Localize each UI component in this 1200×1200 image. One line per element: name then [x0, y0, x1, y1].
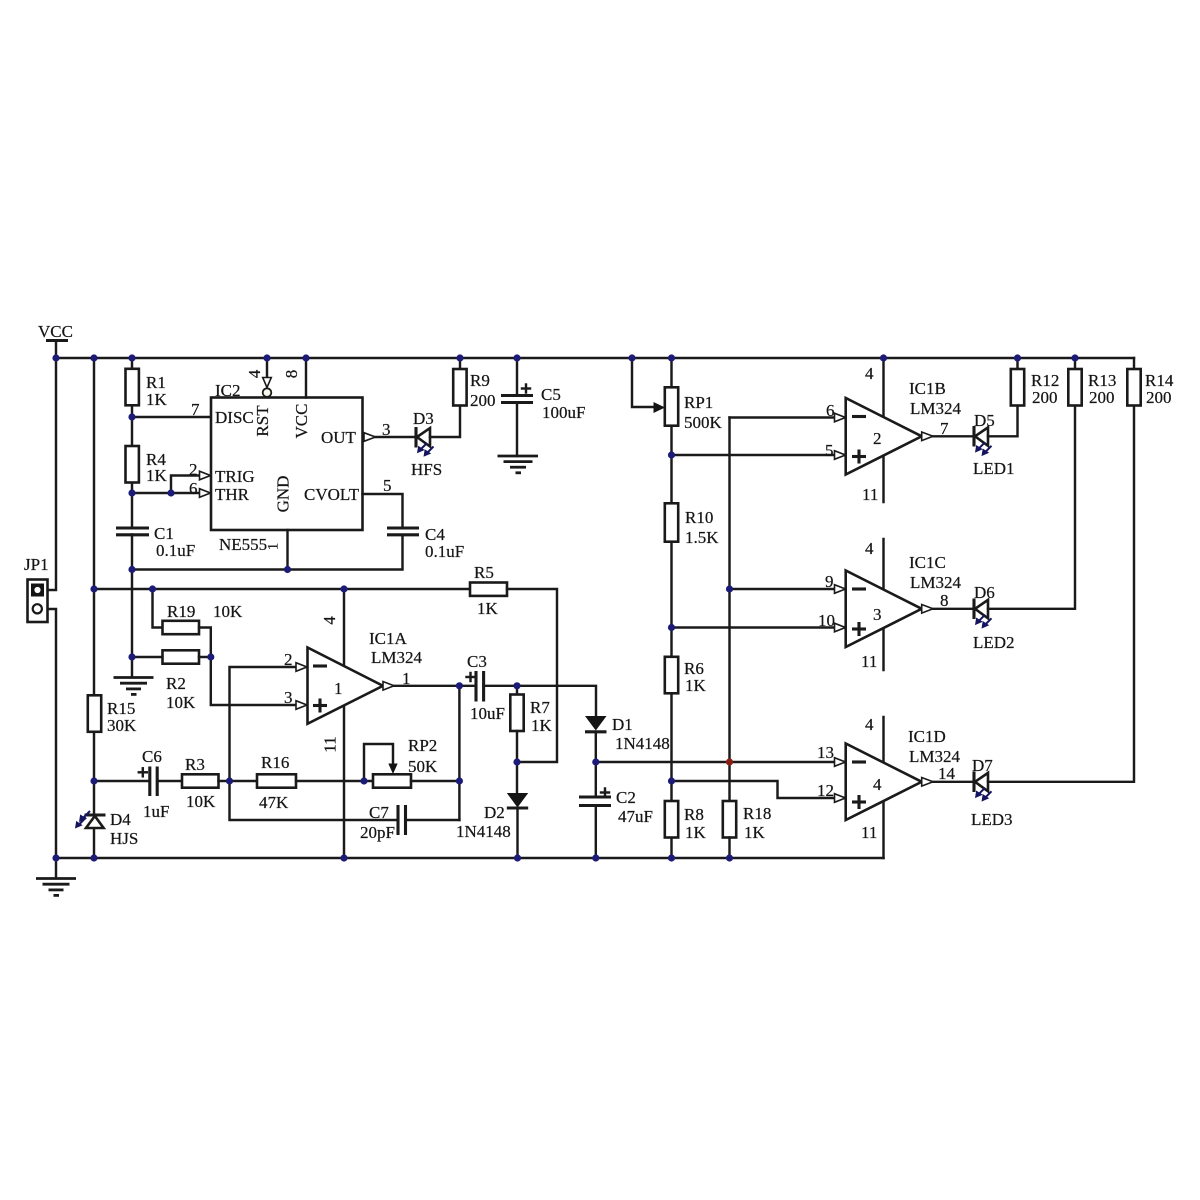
wire R16 to RP2 [296, 780, 373, 782]
pin arrow RST down [263, 378, 272, 388]
svg-text:8: 8 [940, 591, 949, 610]
svg-text:7: 7 [191, 400, 200, 419]
pin arrow IC1C pin9 [835, 585, 846, 594]
svg-text:R3: R3 [185, 755, 205, 774]
junction rail / R15 [90, 585, 97, 592]
capacitor C3 [467, 652, 505, 723]
svg-text:2: 2 [284, 650, 293, 669]
diode D1 1N4148 [585, 715, 670, 797]
capacitor C4 [387, 525, 464, 561]
svg-text:1K: 1K [685, 823, 707, 842]
wire R19 to R2 node [199, 628, 211, 658]
svg-text:1K: 1K [146, 466, 168, 485]
wire R5 to node A [507, 589, 557, 762]
junction VCC bus / R9 [456, 354, 463, 361]
junction VCC bus / 555 RST [263, 354, 270, 361]
wire divider ladder column x=671.5 [670, 358, 672, 858]
junction VCC bus / JP1 branch [52, 354, 59, 361]
pin arrow IC1D pin12 [835, 794, 846, 803]
wire 555 pin1 GND stub [286, 530, 288, 570]
svg-text:HFS: HFS [411, 460, 442, 479]
wire JP1 pin2 to ground bus [48, 609, 57, 858]
svg-text:9: 9 [825, 572, 834, 591]
svg-text:5: 5 [383, 476, 392, 495]
junction ladder tap pin12 [668, 777, 675, 784]
junction R15 / C6 / D4 [90, 777, 97, 784]
svg-text:NE555: NE555 [219, 535, 267, 554]
junction VCC bus / R1 [128, 354, 135, 361]
svg-text:R16: R16 [261, 753, 289, 772]
svg-text:47uF: 47uF [618, 807, 653, 826]
svg-text:100uF: 100uF [542, 403, 585, 422]
svg-text:2: 2 [873, 429, 882, 448]
op-amp IC1D LM324 [846, 727, 961, 820]
wire 555 pin2 TRIG branch [171, 476, 202, 494]
svg-text:C5: C5 [541, 385, 561, 404]
svg-text:LED3: LED3 [971, 810, 1013, 829]
resistor R1 [126, 369, 168, 409]
svg-text:6: 6 [826, 401, 835, 420]
resistor R19 [163, 602, 244, 634]
pin arrow IC1C pin10 [835, 623, 846, 632]
pin arrow IC1A output pin1 [383, 682, 394, 691]
resistor R18 [723, 801, 772, 858]
wire R1/R4/C1 column x=132 [131, 358, 133, 528]
svg-text:LM324: LM324 [910, 399, 962, 418]
svg-text:LM324: LM324 [910, 573, 962, 592]
svg-text:C7: C7 [369, 803, 389, 822]
junction ladder tap pin10 [668, 624, 675, 631]
wire VCC to JP1 pin1 [48, 358, 57, 590]
resistor R5 [470, 563, 507, 618]
svg-text:3: 3 [873, 605, 882, 624]
svg-text:20pF: 20pF [360, 823, 395, 842]
svg-text:IC2: IC2 [215, 381, 241, 400]
wire emitter bias node y=781 [94, 780, 150, 782]
svg-text:2: 2 [189, 460, 198, 479]
wire IC1C power stub [882, 539, 884, 670]
resistor R3 [182, 755, 219, 811]
junction VCC bus / 555 VCC [302, 354, 309, 361]
wire pin1 node vertical [458, 686, 460, 820]
svg-text:13: 13 [817, 743, 834, 762]
svg-text:LED2: LED2 [973, 633, 1015, 652]
junction IC1A out / C3 [456, 682, 463, 689]
svg-text:200: 200 [1032, 388, 1058, 407]
svg-text:1K: 1K [477, 599, 499, 618]
svg-text:47K: 47K [259, 793, 289, 812]
capacitor C2 [579, 788, 653, 858]
junction ground bus / D2 [514, 854, 521, 861]
svg-text:10K: 10K [186, 792, 216, 811]
junction VCC bus / R13 [1071, 354, 1078, 361]
junction RP2 wiper tie [360, 777, 367, 784]
junction ground bus / R8 [668, 854, 675, 861]
svg-text:IC1B: IC1B [909, 379, 946, 398]
svg-text:10uF: 10uF [470, 704, 505, 723]
svg-text:VCC: VCC [292, 404, 311, 439]
junction ground bus / IC1A pin11 [340, 854, 347, 861]
junction VCC bus / IC1B pin4 [880, 354, 887, 361]
wire IC1A out to C3 [394, 685, 476, 687]
junction R2 / ground column [128, 653, 135, 660]
wire IC1D out to D7 [933, 781, 974, 783]
pin arrow IC1B pin6 [835, 413, 846, 422]
svg-text:4: 4 [873, 775, 882, 794]
wire IC1A power pins column [343, 589, 345, 858]
wire IC1C out to D6 [933, 608, 974, 610]
svg-text:1uF: 1uF [143, 802, 169, 821]
resistor R16 [257, 753, 296, 812]
svg-text:10: 10 [818, 611, 835, 630]
svg-text:IC1A: IC1A [369, 629, 408, 648]
wire bias node to IC1A pin3 [199, 657, 296, 705]
wire R19 branch [153, 589, 163, 628]
svg-text:5: 5 [825, 441, 834, 460]
svg-text:D6: D6 [974, 583, 995, 602]
svg-text:10K: 10K [213, 602, 243, 621]
junction VCC bus / RP1 [668, 354, 675, 361]
junction node B D1/C2 [592, 758, 599, 765]
svg-text:RST: RST [253, 405, 272, 437]
wire 555 OUT to D3 [376, 436, 417, 438]
pin arrow TRIG pin2 [200, 471, 211, 480]
pin arrow IC1D pin13 [835, 758, 846, 767]
svg-text:LED1: LED1 [973, 459, 1015, 478]
svg-text:4: 4 [245, 369, 264, 378]
op-amp IC1A LM324 [308, 629, 423, 724]
svg-text:12: 12 [817, 781, 834, 800]
svg-text:1K: 1K [146, 390, 168, 409]
svg-text:R8: R8 [684, 805, 704, 824]
op-amp IC1B LM324 [846, 379, 962, 475]
svg-text:D5: D5 [974, 411, 995, 430]
svg-text:4: 4 [865, 715, 874, 734]
svg-text:IC1C: IC1C [909, 553, 946, 572]
junction VCC bus / RP1 wiper [628, 354, 635, 361]
ground (main, bottom left) [36, 858, 76, 895]
node VCC terminal symbol [38, 322, 73, 358]
wire 555 pin6 THR [132, 492, 202, 494]
wire tap to IC1C pin10 [672, 626, 847, 628]
svg-text:200: 200 [1146, 388, 1172, 407]
svg-text:1.5K: 1.5K [685, 528, 719, 547]
svg-text:R10: R10 [685, 508, 713, 527]
resistor R6 [665, 657, 707, 695]
resistor R2 [163, 650, 200, 712]
junction R18 column / pin9 [726, 585, 733, 592]
svg-text:6: 6 [189, 479, 198, 498]
junction R1 / R4 / pin7 [128, 413, 135, 420]
pin arrow IC1A pin3 [296, 701, 307, 710]
junction ground bus / D4 [90, 854, 97, 861]
svg-text:1N4148: 1N4148 [456, 822, 511, 841]
wire 555 pin8 VCC [305, 358, 307, 398]
svg-text:1K: 1K [531, 716, 553, 735]
resistor R9 [453, 358, 495, 410]
wire IC1D power stub [882, 717, 884, 858]
resistor R8 [665, 801, 707, 842]
capacitor C6 [139, 747, 170, 821]
LED D7 [971, 756, 1013, 829]
junction ladder tap pin5 [668, 451, 675, 458]
pin arrow IC1C output pin8 [922, 605, 933, 614]
wire bottom ground bus [56, 857, 884, 859]
svg-text:C6: C6 [142, 747, 162, 766]
junction TRIG branch [167, 489, 174, 496]
svg-text:4: 4 [320, 616, 339, 625]
junction RP2 / C7 / pin1 node [456, 777, 463, 784]
svg-text:200: 200 [470, 391, 496, 410]
svg-text:D7: D7 [972, 756, 993, 775]
wire C4 bottom / 555 GND return [132, 535, 403, 570]
wire IC1A pin2 feedback [230, 667, 297, 781]
junction C1 / GND return [128, 566, 135, 573]
pin arrow IC1B pin5 [835, 451, 846, 460]
wire R18 / inverting input column x=729.5 [728, 418, 730, 802]
svg-text:14: 14 [938, 764, 956, 783]
svg-text:CVOLT: CVOLT [304, 485, 360, 504]
svg-text:LM324: LM324 [371, 648, 423, 667]
pin arrow IC1A pin2 [296, 663, 307, 672]
svg-text:D2: D2 [484, 803, 505, 822]
junction ground bus / JP1 [52, 854, 59, 861]
wire to IC1C pin9 [730, 588, 847, 590]
wire C3 to R7 top and D1 [484, 686, 596, 716]
svg-text:TRIG: TRIG [215, 467, 255, 486]
svg-text:JP1: JP1 [24, 555, 49, 574]
junction node B / R18 (red) [726, 758, 733, 765]
svg-text:DISC: DISC [215, 408, 254, 427]
IC U2 NE555 body [211, 381, 363, 554]
svg-text:R7: R7 [530, 698, 550, 717]
pin arrow OUT pin3 [364, 433, 376, 442]
LED D5 [973, 411, 1015, 478]
potentiometer RP2 [364, 736, 438, 788]
svg-text:8: 8 [282, 370, 301, 379]
wire R3 to R16 [219, 780, 258, 782]
wire D6 to R13 [988, 406, 1075, 609]
junction R4 / C1 / pin6 [128, 489, 135, 496]
svg-text:4: 4 [865, 539, 874, 558]
svg-text:1K: 1K [744, 823, 766, 842]
wire IC1B out to D5 [933, 435, 974, 437]
svg-text:C2: C2 [616, 788, 636, 807]
svg-text:OUT: OUT [321, 428, 357, 447]
ground (C5) [498, 456, 539, 473]
svg-text:11: 11 [862, 485, 878, 504]
wire 555 pin4 RST from VCC bus [266, 358, 268, 378]
wire D7 to R14 [988, 406, 1134, 782]
RST inversion circle [263, 388, 272, 397]
resistor R10 [665, 503, 719, 547]
wire VCC rail branch x=94 [93, 358, 95, 815]
wire RP2 to pin1 node [411, 780, 459, 782]
junction VCC bus / R15 branch [90, 354, 97, 361]
junction VCC bus / C5 [513, 354, 520, 361]
LED D6 [973, 583, 1015, 652]
potentiometer RP1 [632, 358, 723, 432]
junction rail / IC1A pin4 [340, 585, 347, 592]
resistor R4 [126, 446, 168, 485]
junction 555 GND pin [284, 566, 291, 573]
svg-text:IC1D: IC1D [908, 727, 946, 746]
wire signal node y=762 to IC1D pin13 [596, 761, 846, 763]
svg-text:50K: 50K [408, 757, 438, 776]
svg-text:4: 4 [865, 364, 874, 383]
wire R2 left to ground column [132, 656, 163, 658]
pin arrow IC1D output pin14 [922, 778, 933, 787]
svg-text:11: 11 [861, 652, 877, 671]
resistor R14 [1127, 358, 1174, 407]
svg-text:R19: R19 [167, 602, 195, 621]
junction C3 / R7 top [513, 682, 520, 689]
ground (R2 / C1 branch) [114, 678, 154, 695]
junction ground bus / C2 [592, 854, 599, 861]
svg-text:HJS: HJS [110, 829, 138, 848]
capacitor C1 [116, 524, 195, 560]
resistor R13 [1068, 358, 1116, 407]
wire tap to IC1D pin12 [672, 781, 847, 798]
capacitor C7 [230, 781, 460, 842]
wire lower VCC rail y=589 [94, 588, 470, 590]
wire C6 to R3 [157, 780, 182, 782]
svg-text:RP1: RP1 [684, 393, 713, 412]
svg-text:VCC: VCC [38, 322, 73, 341]
resistor R12 [1011, 358, 1060, 407]
svg-text:1K: 1K [685, 676, 707, 695]
connector JP1 [24, 555, 49, 622]
svg-text:RP2: RP2 [408, 736, 437, 755]
resistor R15 [88, 695, 137, 735]
junction R19 / R2 bias node [207, 653, 214, 660]
svg-text:D1: D1 [612, 715, 633, 734]
svg-text:GND: GND [273, 476, 292, 513]
svg-text:3: 3 [284, 688, 293, 707]
svg-text:0.1uF: 0.1uF [156, 541, 195, 560]
pin arrow IC1B output pin7 [922, 432, 933, 441]
diode D2 1N4148 [456, 762, 528, 858]
svg-text:30K: 30K [107, 716, 137, 735]
wire to IC1B pin6 [730, 416, 847, 418]
junction VCC bus / R12 [1014, 354, 1021, 361]
svg-text:1: 1 [334, 679, 343, 698]
svg-text:THR: THR [215, 485, 250, 504]
wire D3 to R9 [430, 406, 460, 438]
wire 555 pin5 CVOLT to C4 [363, 494, 403, 528]
svg-text:1N4148: 1N4148 [615, 734, 670, 753]
svg-text:R18: R18 [743, 804, 771, 823]
pin arrow THR pin6 [200, 489, 211, 498]
svg-text:C3: C3 [467, 652, 487, 671]
resistor R7 [510, 686, 552, 762]
svg-text:11: 11 [861, 823, 877, 842]
wire D5 to R12 [988, 406, 1018, 437]
svg-text:10K: 10K [166, 693, 196, 712]
svg-text:500K: 500K [684, 413, 723, 432]
junction node A R7/R5/D2 [513, 758, 520, 765]
junction R3 / R16 / pin2 [226, 777, 233, 784]
svg-text:200: 200 [1089, 388, 1115, 407]
junction ground bus / R18 [726, 854, 733, 861]
svg-text:1: 1 [265, 543, 281, 551]
svg-text:R5: R5 [474, 563, 494, 582]
capacitor C5 [501, 358, 585, 456]
wire tap to IC1B pin5 [672, 454, 847, 456]
svg-text:0.1uF: 0.1uF [425, 542, 464, 561]
svg-text:R9: R9 [470, 371, 490, 390]
wire 555 pin7 DISC [132, 416, 211, 418]
photodiode D4 [75, 810, 138, 848]
op-amp IC1C LM324 [846, 553, 962, 647]
svg-text:R2: R2 [166, 674, 186, 693]
svg-text:D4: D4 [110, 810, 131, 829]
junction rail / R19 [149, 585, 156, 592]
svg-text:11: 11 [320, 736, 339, 752]
wire top VCC bus [55, 357, 1134, 359]
wire IC1B power column [882, 358, 884, 502]
LED D3 (HFS emitter) [411, 409, 442, 479]
svg-text:D3: D3 [413, 409, 434, 428]
